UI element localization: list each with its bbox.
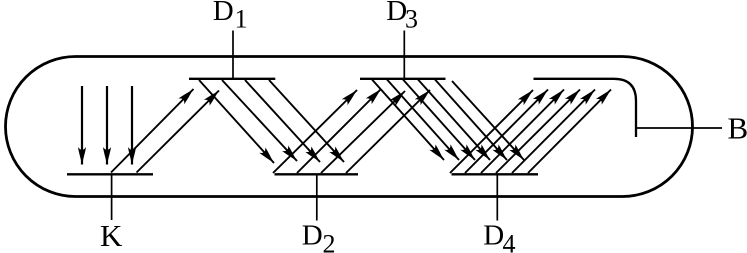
D4 lead wire — [496, 174, 498, 220]
incident light arrow 2 — [106, 86, 108, 165]
electron arrow D4 to anode (f) — [528, 90, 611, 174]
electron arrow D3 to D4 (b) — [387, 80, 459, 161]
svg-text:4: 4 — [503, 230, 516, 253]
electron arrow D3 to D4 (e) — [435, 80, 507, 161]
electron arrow D2 to D3 (d) — [346, 90, 430, 173]
electron arrow K to D1 (b) — [137, 91, 220, 173]
dynode D3 plate — [360, 78, 446, 80]
anode plate — [534, 79, 637, 137]
svg-text:K: K — [100, 218, 123, 253]
dynode D1 plate — [189, 78, 275, 80]
svg-text:2: 2 — [323, 230, 336, 253]
electron arrow D4 to anode (c) — [481, 90, 564, 174]
electron arrow D4 to anode (d) — [496, 90, 580, 174]
electron arrow D2 to D3 (c) — [321, 91, 405, 173]
electron arrow D1 to D2 (b) — [222, 80, 297, 161]
D3 lead wire — [403, 31, 405, 79]
cathode K plate — [67, 173, 153, 175]
electron arrow D4 to anode (b) — [465, 90, 548, 174]
electron arrow D3 to D4 (c) — [403, 80, 475, 161]
incident light arrow 3 — [131, 86, 133, 165]
svg-text:3: 3 — [405, 4, 418, 33]
dynode D2 plate — [275, 173, 359, 175]
electron arrow D1 to D2 (d) — [269, 80, 344, 162]
D2 lead wire — [316, 174, 318, 220]
electron arrow D3 to D4 (f) — [452, 81, 524, 160]
electron arrow D4 to anode (a) — [450, 90, 533, 173]
svg-text:B: B — [728, 111, 747, 146]
svg-text:D: D — [302, 220, 323, 252]
svg-text:D: D — [213, 0, 234, 27]
electron arrow D2 to D3 (a) — [273, 90, 357, 173]
svg-text:1: 1 — [235, 4, 248, 33]
electron arrow D4 to anode (e) — [512, 90, 595, 174]
electron arrow D1 to D2 (c) — [245, 80, 320, 162]
electron arrow K to D1 (a) — [111, 89, 194, 173]
electron arrow D3 to D4 (a) — [372, 80, 444, 161]
tube envelope — [6, 57, 693, 197]
D1 lead wire — [232, 31, 234, 79]
electron arrow D1 to D2 (a) — [199, 80, 274, 163]
incident light arrow 1 — [81, 86, 83, 165]
B lead wire — [636, 127, 722, 129]
dynode D4 plate — [452, 173, 539, 175]
svg-text:D: D — [483, 220, 504, 252]
electron arrow D2 to D3 (b) — [297, 89, 381, 173]
electron arrow D3 to D4 (d) — [418, 80, 490, 161]
K lead wire — [111, 174, 113, 220]
